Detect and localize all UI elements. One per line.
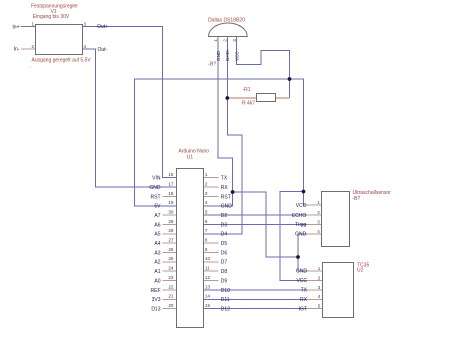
svg-text:..: .. bbox=[29, 64, 32, 70]
svg-text:2: 2 bbox=[31, 44, 34, 49]
svg-text:D4: D4 bbox=[221, 232, 228, 238]
svg-text:GND: GND bbox=[295, 232, 307, 238]
svg-text:D6: D6 bbox=[221, 250, 228, 256]
svg-text:Ausgang geregelt auf 5,5V: Ausgang geregelt auf 5,5V bbox=[32, 58, 92, 64]
svg-text:13: 13 bbox=[205, 284, 211, 289]
svg-text:3: 3 bbox=[232, 39, 237, 42]
svg-text:D8: D8 bbox=[221, 269, 228, 275]
svg-text:19: 19 bbox=[168, 200, 174, 205]
svg-text:8: 8 bbox=[205, 238, 208, 243]
svg-text:-B?: -B? bbox=[353, 196, 361, 202]
svg-text:22: 22 bbox=[168, 284, 174, 289]
svg-text:D13: D13 bbox=[151, 307, 160, 313]
svg-text:RX: RX bbox=[221, 185, 229, 191]
svg-text:17: 17 bbox=[168, 181, 174, 186]
svg-text:In+: In+ bbox=[12, 24, 19, 30]
svg-text:GND: GND bbox=[221, 204, 233, 210]
svg-text:Trigg: Trigg bbox=[295, 222, 306, 228]
svg-text:30: 30 bbox=[168, 210, 174, 215]
svg-text:4: 4 bbox=[84, 44, 87, 49]
svg-text:VCC: VCC bbox=[296, 203, 307, 209]
svg-text:4: 4 bbox=[205, 200, 208, 205]
svg-text:TX: TX bbox=[301, 288, 308, 294]
svg-text:D11: D11 bbox=[221, 297, 230, 303]
svg-text:18: 18 bbox=[168, 191, 174, 196]
svg-text:GND: GND bbox=[296, 269, 308, 275]
svg-text:5V: 5V bbox=[154, 204, 161, 210]
svg-text:-B?: -B? bbox=[208, 62, 216, 68]
svg-text:RST: RST bbox=[221, 194, 231, 200]
svg-text:24: 24 bbox=[168, 266, 174, 271]
svg-text:GND: GND bbox=[216, 50, 221, 61]
svg-text:IGT: IGT bbox=[299, 306, 307, 312]
svg-text:27: 27 bbox=[168, 238, 174, 243]
svg-text:2: 2 bbox=[223, 39, 228, 42]
svg-text:3: 3 bbox=[205, 191, 208, 196]
svg-text:VIN: VIN bbox=[152, 176, 161, 182]
svg-text:26: 26 bbox=[168, 247, 174, 252]
svg-text:3: 3 bbox=[317, 219, 320, 224]
svg-text:D5: D5 bbox=[221, 241, 228, 247]
svg-text:A4: A4 bbox=[154, 241, 160, 247]
svg-text:A2: A2 bbox=[154, 260, 160, 266]
svg-text:In-: In- bbox=[14, 47, 20, 53]
svg-text:29: 29 bbox=[168, 219, 174, 224]
svg-text:1: 1 bbox=[205, 172, 208, 177]
svg-text:A6: A6 bbox=[154, 222, 160, 228]
svg-text:D9: D9 bbox=[221, 278, 228, 284]
svg-text:RX: RX bbox=[300, 297, 308, 303]
svg-text:2: 2 bbox=[205, 181, 208, 186]
svg-text:U2: U2 bbox=[357, 268, 364, 274]
svg-text:1: 1 bbox=[31, 22, 34, 27]
svg-text:D10: D10 bbox=[221, 288, 230, 294]
svg-text:1: 1 bbox=[213, 39, 218, 42]
svg-text:1: 1 bbox=[317, 200, 320, 205]
svg-text:9: 9 bbox=[205, 247, 208, 252]
svg-text:4: 4 bbox=[317, 229, 320, 234]
svg-text:3: 3 bbox=[84, 22, 87, 27]
svg-text:1: 1 bbox=[318, 266, 321, 271]
svg-text:14: 14 bbox=[205, 294, 211, 299]
svg-text:D2: D2 bbox=[221, 213, 228, 219]
svg-text:28: 28 bbox=[168, 228, 174, 233]
svg-text:TX: TX bbox=[221, 176, 228, 182]
svg-text:A1: A1 bbox=[154, 269, 160, 275]
svg-text:4: 4 bbox=[318, 294, 321, 299]
svg-text:16: 16 bbox=[168, 172, 174, 177]
svg-text:A7: A7 bbox=[154, 213, 160, 219]
svg-text:11: 11 bbox=[205, 266, 210, 271]
svg-text:-R1: -R1 bbox=[243, 87, 251, 93]
svg-text:2: 2 bbox=[318, 275, 321, 280]
svg-text:D3: D3 bbox=[221, 222, 228, 228]
svg-text:2: 2 bbox=[317, 210, 320, 215]
svg-text:12: 12 bbox=[205, 275, 211, 280]
svg-text:10: 10 bbox=[205, 256, 211, 261]
svg-text:7: 7 bbox=[205, 228, 208, 233]
svg-text:15: 15 bbox=[205, 303, 211, 308]
svg-text:A0: A0 bbox=[154, 278, 160, 284]
svg-text:D12: D12 bbox=[221, 307, 230, 313]
svg-text:A5: A5 bbox=[154, 232, 160, 238]
svg-text:DATA: DATA bbox=[225, 48, 230, 61]
svg-text:D7: D7 bbox=[221, 260, 228, 266]
svg-text:6: 6 bbox=[205, 219, 208, 224]
svg-text:ECHO: ECHO bbox=[292, 213, 307, 219]
svg-text:Dallas DS18B20: Dallas DS18B20 bbox=[208, 18, 245, 24]
svg-text:VCC: VCC bbox=[234, 51, 239, 61]
svg-text:3V3: 3V3 bbox=[152, 297, 161, 303]
svg-text:VCC: VCC bbox=[296, 278, 307, 284]
svg-text:R 4k7: R 4k7 bbox=[242, 101, 255, 107]
svg-text:3: 3 bbox=[318, 285, 321, 290]
svg-text:21: 21 bbox=[168, 294, 174, 299]
svg-text:U1: U1 bbox=[187, 155, 194, 161]
svg-text:5: 5 bbox=[318, 304, 321, 309]
svg-text:Eingang bis 30V: Eingang bis 30V bbox=[33, 14, 70, 20]
svg-text:23: 23 bbox=[168, 275, 174, 280]
svg-text:Arduino Nano: Arduino Nano bbox=[179, 149, 210, 155]
svg-text:RST: RST bbox=[151, 194, 161, 200]
svg-text:A3: A3 bbox=[154, 250, 160, 256]
svg-text:Out-: Out- bbox=[98, 47, 108, 53]
svg-text:20: 20 bbox=[168, 303, 174, 308]
svg-text:REF: REF bbox=[151, 288, 161, 294]
svg-text:5: 5 bbox=[205, 210, 208, 215]
svg-text:GND: GND bbox=[149, 185, 161, 191]
svg-text:25: 25 bbox=[168, 256, 174, 261]
svg-text:Out+: Out+ bbox=[97, 24, 108, 30]
